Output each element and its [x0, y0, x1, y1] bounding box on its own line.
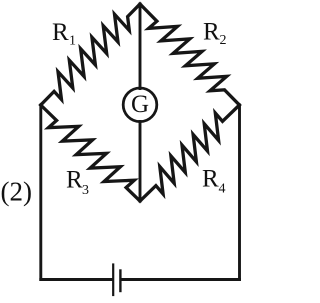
svg-text:3: 3 — [82, 183, 89, 198]
svg-text:2: 2 — [220, 33, 227, 48]
svg-text:(2): (2) — [1, 177, 32, 207]
label R3 — [66, 167, 89, 199]
galvanometer G circle — [123, 88, 157, 122]
svg-text:R: R — [202, 166, 219, 193]
label R1 — [52, 19, 76, 49]
wire right vertex down — [238, 105, 241, 280]
svg-text:G: G — [131, 91, 149, 118]
resistor R2 — [140, 4, 239, 105]
svg-text:1: 1 — [69, 34, 76, 49]
wire left vertex down — [39, 105, 42, 280]
wire galvanometer to bottom vertex — [139, 122, 142, 202]
svg-text:R: R — [52, 19, 69, 46]
resistor R3 — [41, 105, 140, 201]
svg-text:R: R — [66, 167, 83, 194]
svg-text:4: 4 — [219, 182, 226, 197]
battery long plate — [112, 265, 114, 296]
wire battery to bottom right — [122, 278, 240, 281]
wire top vertex to galvanometer — [139, 4, 142, 89]
wire bottom left to battery — [41, 278, 112, 281]
battery short plate — [119, 271, 121, 292]
resistor R4 — [140, 105, 239, 201]
label R4 — [202, 166, 226, 197]
svg-text:R: R — [203, 19, 220, 46]
resistor R1 — [41, 4, 140, 105]
label R2 — [203, 19, 227, 49]
